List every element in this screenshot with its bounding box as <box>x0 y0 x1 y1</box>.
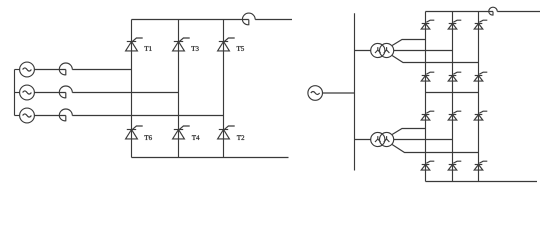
wire: phase a bus-to-source lead <box>15 69 20 71</box>
AC source uc (phase c) <box>20 108 35 123</box>
label T1 <box>144 46 151 51</box>
wire: phase c reactor-to-bridge lead <box>72 115 223 117</box>
thyristor VT22 <box>475 164 483 166</box>
inductor Lb (line reactor) <box>59 86 72 98</box>
wire: positive DC bus (top) <box>132 19 249 21</box>
AC source ub (phase b) <box>20 85 35 100</box>
wire: left source common bus (vertical) <box>14 70 16 116</box>
thyristor VT12 <box>475 75 483 77</box>
thyristor T5 <box>219 41 228 43</box>
wire: busbar to transformer TR2 primary <box>355 139 372 141</box>
wire: bridge leg 2 (T3/T4 column) <box>178 20 180 158</box>
thyristor VT14 <box>422 75 430 77</box>
label T6 <box>144 135 152 140</box>
thyristor T6 <box>127 129 136 131</box>
wire: positive DC bus of bridge 1 (top) <box>426 11 494 13</box>
thyristor T3 <box>174 41 183 43</box>
wire: busbar to transformer TR1 primary <box>355 50 372 52</box>
wire: TR1 secondary phase b (to bridge 1 leg 2) <box>394 50 453 52</box>
wire: series bridge leg 2 (column) <box>452 12 454 182</box>
wire: negative DC bus (bottom) <box>132 157 289 159</box>
AC source us (supply grid) <box>308 86 323 101</box>
transformer TR2 (two-winding, wye marks) <box>371 132 385 146</box>
thyristor VT21 <box>422 114 430 116</box>
wire: TR2 secondary phase a (to bridge 2 leg 1) <box>392 129 426 135</box>
wire: phase b bus-to-source lead <box>15 92 20 94</box>
label T4 <box>192 135 200 140</box>
thyristor VT15 <box>475 23 483 25</box>
thyristor VT25 <box>475 114 483 116</box>
thyristor VT26 <box>449 164 457 166</box>
thyristor VT23 <box>449 114 457 116</box>
label T5 <box>237 46 244 51</box>
label T3 <box>191 46 198 51</box>
inductor Ld1 (DC smoothing reactor) <box>242 13 255 25</box>
wire: bridge leg 1 (T1/T6 column) <box>131 20 133 158</box>
wire: phase a reactor-to-bridge lead <box>72 69 131 71</box>
busbar (vertical supply bus) <box>354 13 356 170</box>
wire: TR2 secondary phase b (to bridge 2 leg 2) <box>394 139 453 141</box>
inductor Ld2 (DC smoothing reactor) <box>489 7 498 15</box>
thyristor VT24 <box>422 164 430 166</box>
wire: source-to-busbar lead <box>323 92 355 94</box>
wire: phase b source-to-reactor lead <box>34 92 65 94</box>
wire: DC+ output lead <box>255 19 292 21</box>
label T2 <box>237 135 244 140</box>
wire: phase c bus-to-source lead <box>15 115 20 117</box>
thyristor T4 <box>174 129 183 131</box>
wire: series bridge leg 1 (column) <box>425 12 427 182</box>
thyristor T2 <box>219 129 228 131</box>
wire: TR2 secondary phase c (to bridge 2 leg 3) <box>392 144 479 152</box>
wire: TR1 secondary phase c (to bridge 1 leg 3) <box>392 55 479 62</box>
thyristor VT16 <box>449 75 457 77</box>
wire: phase b reactor-to-bridge lead <box>72 92 178 94</box>
wire: midpoint bus joining bridge 1 and bridge 2 <box>426 92 479 94</box>
transformer TR1 (two-winding, wye marks) <box>371 43 385 57</box>
wire: series bridge leg 3 (column) <box>478 12 480 182</box>
wire: phase c source-to-reactor lead <box>34 115 65 117</box>
inductor La (line reactor) <box>59 63 72 75</box>
wire: phase a source-to-reactor lead <box>34 69 65 71</box>
thyristor T1 <box>127 41 136 43</box>
thyristor VT13 <box>449 23 457 25</box>
AC source ua (phase a) <box>20 62 35 77</box>
wire: negative DC bus of bridge 2 (bottom) <box>426 181 538 183</box>
wire: DC+ output lead (right) <box>497 11 540 13</box>
inductor Lc (line reactor) <box>59 109 72 121</box>
thyristor VT11 <box>422 23 430 25</box>
wire: TR1 secondary phase a (to bridge 1 leg 1) <box>392 40 426 46</box>
wire: bridge leg 3 (T5/T2 column) <box>223 20 225 158</box>
